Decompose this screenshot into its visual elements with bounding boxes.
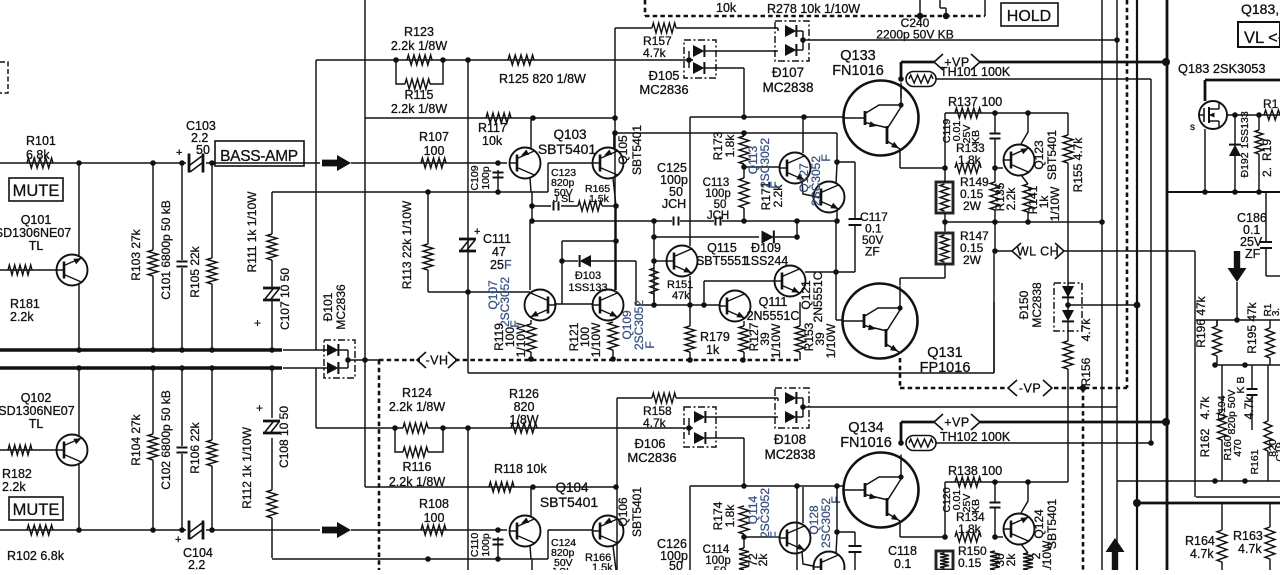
label R151 47k: [667, 279, 693, 302]
label R1..: [1263, 97, 1279, 111]
svg-text:+: +: [176, 147, 182, 159]
svg-text:Q104: Q104: [555, 480, 589, 495]
label R181 2.2k: [10, 297, 40, 324]
svg-text:100: 100: [424, 144, 445, 158]
node junction: [495, 189, 501, 195]
label Q103 SBT5401: [538, 127, 597, 157]
capacitor C186: [1260, 242, 1272, 248]
resistor R179: [685, 326, 695, 352]
label R104 27k: [129, 413, 143, 465]
wire: [744, 164, 779, 178]
wire: [271, 260, 273, 288]
svg-text:SD1306NE07: SD1306NE07: [0, 226, 71, 240]
label Q109 2SC3052 F: [620, 300, 657, 350]
wire: [995, 167, 1003, 169]
wire: [1216, 320, 1218, 326]
svg-text:R182: R182: [2, 467, 32, 481]
wire collector Q109: [615, 241, 617, 290]
label R157 4.7k: [643, 34, 672, 60]
wire: [351, 162, 507, 164]
node junction: [269, 365, 275, 371]
resistor R158: [652, 393, 676, 403]
node junction: [613, 238, 619, 244]
wire: [689, 352, 691, 359]
wire: [635, 261, 637, 305]
svg-text:SBT5551: SBT5551: [696, 254, 748, 268]
wire: [653, 294, 655, 305]
wire: [799, 302, 801, 360]
transistor Q123: [1004, 145, 1035, 176]
wire: [984, 0, 986, 16]
node junction: [898, 76, 904, 82]
resistor R137: [955, 108, 981, 118]
svg-text:4.7k: 4.7k: [1079, 318, 1093, 342]
transistor Q124: [1004, 514, 1035, 545]
svg-text:1.8k: 1.8k: [723, 134, 737, 158]
wire: [919, 0, 921, 16]
node junction: [528, 356, 534, 362]
node junction: [992, 248, 998, 254]
wire: [78, 163, 80, 256]
label R112 1k 1/10W: [240, 426, 254, 508]
label R160 470: [1222, 435, 1244, 460]
label R138 100: [948, 464, 1002, 478]
transistor Q105: [593, 148, 624, 179]
dashed box fragment: [0, 62, 8, 93]
svg-text:1.8k: 1.8k: [723, 504, 737, 528]
label R108 100: [419, 497, 449, 525]
wire emitter Q104: [530, 546, 531, 559]
label C107 10 50: [278, 268, 292, 330]
resistor R138: [955, 477, 981, 487]
node junction: [529, 203, 535, 209]
resistor R142: [1023, 553, 1033, 570]
label C101 6800p 50 kB: [159, 200, 173, 299]
node junction: [800, 404, 806, 410]
wire: [940, 0, 946, 16]
wire vertical bus thick: [1136, 0, 1138, 570]
label R155 4.7k: [1071, 137, 1085, 193]
capacitor C123: [551, 167, 576, 211]
wire: [1234, 115, 1236, 192]
label R147 0.15 2W: [960, 229, 989, 267]
svg-text:R278 10k 1/10W: R278 10k 1/10W: [767, 2, 860, 16]
svg-text:1.5k: 1.5k: [589, 193, 610, 205]
wire collector Q114: [802, 487, 804, 523]
wire: [1267, 365, 1269, 481]
label R172 2.2k: [746, 553, 770, 567]
wire: [743, 321, 745, 359]
input arrow: [322, 522, 351, 538]
wire: [591, 260, 636, 262]
wire: [744, 534, 779, 548]
node junction: [1234, 317, 1240, 323]
node junction: [741, 130, 747, 136]
boxed resistor R150: [936, 551, 953, 570]
wire: [690, 485, 843, 487]
wire: [617, 397, 652, 399]
resistor R163: [1265, 527, 1275, 559]
label Q114 2SC3052 F: [746, 488, 782, 539]
resistor R124: [403, 423, 428, 433]
wire emitter Q103: [530, 178, 531, 192]
wire collector Q128: [836, 534, 837, 554]
thermistor TH102: [906, 436, 936, 451]
label R137 100: [948, 95, 1002, 109]
node junction: [943, 13, 949, 19]
wire: [206, 162, 320, 164]
diode pair D106: [684, 407, 716, 447]
svg-text:R162: R162: [1198, 428, 1212, 457]
wire vertical: [614, 28, 616, 290]
capacitor C103: [176, 119, 216, 173]
wire: [836, 272, 843, 320]
svg-text:Q115: Q115: [707, 241, 737, 255]
transistor Q109: [593, 290, 624, 321]
resistor R107: [421, 158, 446, 168]
svg-text:0.1: 0.1: [894, 557, 911, 570]
label C240 2200p 50V KB: [876, 16, 953, 42]
node junction: [651, 258, 657, 264]
capacitor C113: [716, 217, 721, 226]
svg-text:1/10W: 1/10W: [769, 323, 783, 358]
node junction: [209, 365, 215, 371]
node junction: [741, 534, 747, 540]
wire: [936, 78, 1151, 80]
node junction: [76, 365, 82, 371]
svg-text:SBT5401: SBT5401: [630, 125, 644, 175]
wire: [1067, 481, 1069, 483]
svg-text:R102 6.8k: R102 6.8k: [7, 549, 65, 563]
node junction: [1080, 385, 1086, 391]
label R103 27k: [129, 228, 143, 280]
node junction: [440, 57, 446, 63]
wire bus: [0, 348, 282, 351]
label MUTE: [9, 178, 63, 201]
node junction: [992, 479, 998, 485]
node junction: [150, 365, 156, 371]
label Q121 2N5551C: [799, 271, 825, 322]
svg-text:C102 6800p 50 kB: C102 6800p 50 kB: [159, 390, 173, 489]
node junction: [530, 115, 536, 121]
label R121 100 1/10W: [567, 322, 603, 357]
wire: [78, 284, 80, 350]
node junction: [610, 356, 616, 362]
wire: [900, 149, 948, 171]
capacitor C102: [177, 448, 188, 453]
svg-text:R103 27k: R103 27k: [129, 228, 143, 280]
svg-text:10k: 10k: [482, 134, 503, 148]
svg-text:R155 4.7k: R155 4.7k: [1071, 137, 1085, 193]
wire: [561, 205, 578, 207]
label R166 1.5k: [551, 552, 613, 575]
svg-text:Q183 2SK3053: Q183 2SK3053: [1178, 61, 1266, 76]
capacitor C107: [254, 288, 280, 330]
transistor Q113: [780, 153, 811, 184]
svg-text:0.15: 0.15: [958, 556, 982, 570]
transistor Q134: [844, 453, 919, 528]
svg-text:2.2k 1/8W: 2.2k 1/8W: [391, 102, 447, 116]
svg-text:Q124: Q124: [1032, 509, 1046, 539]
node junction: [741, 164, 747, 170]
resistor R115: [396, 60, 443, 89]
node junction: [992, 110, 998, 116]
label Q133 FN1016: [832, 48, 884, 79]
capacitor C120: [990, 503, 1001, 508]
svg-text:Đ105: Đ105: [648, 68, 679, 83]
wire vertical: [467, 60, 469, 373]
svg-text:47: 47: [492, 245, 506, 259]
node junction: [917, 13, 923, 19]
svg-text:4.7k: 4.7k: [643, 416, 667, 430]
wire: [705, 68, 744, 117]
label R156 4.7k: [1079, 318, 1093, 387]
label Q183 2SK3053: [1178, 61, 1266, 76]
wire: [1196, 496, 1280, 498]
transistor Q103: [510, 148, 541, 179]
wire: [995, 250, 1012, 252]
wire: [152, 368, 154, 434]
wire: [562, 260, 578, 262]
wire: [615, 27, 652, 29]
wire: [994, 168, 996, 251]
diode pair D107: [775, 21, 809, 61]
node junction: [179, 347, 185, 353]
wire: [1269, 503, 1271, 570]
label D106 MC2836: [627, 436, 676, 465]
svg-text:2k: 2k: [756, 553, 770, 567]
capacitor C194: [1247, 389, 1258, 395]
wire: [993, 251, 995, 373]
transistor Q115: [667, 246, 698, 277]
node junction: [1134, 302, 1141, 309]
svg-text:100p: 100p: [480, 533, 492, 557]
svg-text:6.8k: 6.8k: [26, 148, 50, 162]
wire: [900, 521, 948, 540]
svg-text:Đ108: Đ108: [774, 432, 806, 447]
wire: [654, 260, 668, 262]
wire: [1067, 322, 1069, 482]
label Q131 FP1016: [920, 345, 971, 376]
mosfet Q183: [1199, 101, 1227, 129]
wire: [211, 163, 213, 258]
label C120 0.01 25V KB: [941, 487, 982, 513]
svg-text:Q123: Q123: [1032, 140, 1046, 170]
svg-text:2.2k: 2.2k: [10, 310, 34, 324]
svg-text:Q183,1: Q183,1: [1241, 1, 1280, 17]
label R150 0.15 2W: [958, 544, 987, 570]
wire: [797, 486, 855, 570]
label C117 0.1 50V ZF: [860, 210, 888, 259]
svg-text:+: +: [254, 316, 261, 330]
svg-text:F: F: [504, 258, 512, 272]
node junction: [834, 483, 840, 489]
resistor R105: [207, 258, 217, 284]
resistor R173: [739, 136, 749, 164]
label C113 100p 50 JCH: [703, 177, 731, 222]
svg-text:3.: 3.: [1271, 308, 1280, 316]
wire: [1067, 113, 1069, 288]
transistor Q101: [57, 255, 88, 286]
svg-text:100: 100: [424, 511, 445, 525]
node junction: [1202, 189, 1208, 195]
svg-text:Q105: Q105: [616, 135, 630, 165]
wire dotted: [644, 0, 647, 16]
wire: [271, 368, 273, 418]
label C125 100p 50 JCH: [657, 161, 688, 211]
node junction: [1212, 478, 1218, 484]
resistor R118: [489, 482, 514, 492]
resistor R121: [608, 322, 618, 350]
transistor Q131: [843, 284, 918, 359]
svg-text:R125 820 1/8W: R125 820 1/8W: [499, 72, 586, 86]
resistor: [1264, 110, 1280, 120]
wire: [941, 302, 994, 373]
capacitor C118: [849, 546, 862, 552]
wire: [206, 529, 320, 531]
svg-text:25: 25: [490, 258, 504, 272]
node junction: [651, 234, 657, 240]
wire: [152, 163, 154, 250]
label R107 100: [419, 130, 449, 158]
resistor R196: [1213, 326, 1222, 356]
label Q102 2SD1306NE07 TL: [0, 391, 75, 431]
wire: [561, 241, 563, 304]
svg-text:47k: 47k: [672, 290, 690, 302]
label D108 MC2838: [764, 432, 815, 462]
transistor Q121: [775, 266, 806, 297]
node junction: [1148, 440, 1154, 446]
node junction: [992, 165, 998, 171]
label D107 MC2838: [762, 65, 813, 95]
label R141 1k 1/10W: [1026, 185, 1062, 221]
label R126 820 1/8W: [509, 387, 539, 427]
svg-text:VL <-: VL <-: [1244, 29, 1280, 47]
wire: [944, 482, 946, 537]
svg-text:TH102 100K: TH102 100K: [940, 430, 1011, 444]
svg-text:4.7k: 4.7k: [1238, 542, 1262, 556]
svg-text:C19: C19: [1274, 442, 1280, 461]
resistor R119: [526, 324, 536, 352]
node junction: [1133, 499, 1141, 507]
wire bus thick: [1137, 502, 1280, 505]
resistor R125: [508, 55, 534, 65]
wire dotted vertical: [1082, 388, 1085, 570]
node junction: [1256, 189, 1262, 195]
node junction: [651, 302, 657, 308]
svg-text:+: +: [256, 401, 263, 415]
label R123 2.2k 1/8W: [391, 25, 447, 53]
resistor R141: [1023, 184, 1033, 212]
node junction: [440, 425, 446, 431]
diode pair D101: [283, 340, 355, 378]
resistor R117: [486, 113, 511, 123]
wire collector Q103: [530, 118, 532, 148]
label TH102 100K: [940, 430, 1011, 444]
wire: [1236, 282, 1238, 320]
wire: [945, 112, 1068, 114]
svg-text:HOLD: HOLD: [1007, 8, 1051, 25]
node junction: [150, 160, 156, 166]
wire: [211, 466, 213, 530]
label R135 2.2k: [993, 182, 1018, 211]
node junction: [362, 357, 368, 363]
wire: [316, 368, 684, 428]
node junction: [794, 234, 800, 240]
resistor R126: [511, 423, 537, 433]
label C119 0.01 25V KB: [941, 119, 982, 144]
wire: [796, 221, 798, 237]
svg-text:R137 100: R137 100: [948, 95, 1002, 109]
node junction: [179, 160, 185, 166]
wire: [1266, 192, 1280, 276]
wire: [554, 303, 592, 305]
wire: [531, 192, 533, 221]
svg-text:JCH: JCH: [707, 210, 729, 222]
net label WL CH: [1012, 243, 1064, 259]
svg-text:Q131: Q131: [927, 345, 962, 361]
wire thick: [980, 421, 1166, 424]
wire: [532, 220, 654, 222]
wire: [684, 418, 693, 435]
svg-text:Đ106: Đ106: [634, 436, 665, 451]
svg-text:F: F: [819, 154, 833, 161]
svg-text:Q101: Q101: [21, 213, 52, 227]
svg-text:1/10W: 1/10W: [1048, 186, 1062, 221]
wire: [316, 59, 684, 61]
svg-text:K B: K B: [1235, 377, 1247, 394]
wire: [532, 205, 551, 207]
svg-text:2SD1306NE07: 2SD1306NE07: [0, 404, 75, 418]
svg-text:MC2838: MC2838: [764, 447, 815, 462]
label R124 2.2k 1/8W: [389, 386, 445, 414]
node junction: [76, 160, 82, 166]
label R158 4.7k: [643, 404, 672, 430]
label C114 100p 50: [703, 544, 731, 575]
svg-text:C108 10 50: C108 10 50: [277, 406, 291, 468]
label Q128 2SC3052 F: [807, 496, 843, 548]
label D192 1SS133: [1239, 111, 1251, 177]
wire: [654, 304, 720, 306]
svg-text:R161: R161: [1249, 449, 1261, 474]
svg-text:2SC3052: 2SC3052: [758, 488, 772, 538]
label R163 4.7k: [1233, 529, 1263, 556]
wire: [272, 163, 592, 192]
svg-text:2SC3052: 2SC3052: [498, 277, 512, 327]
svg-text:-VP: -VP: [1019, 382, 1041, 396]
resistor R112: [267, 490, 277, 518]
diode D109: [762, 231, 774, 244]
node junction: [1162, 418, 1170, 426]
label Q124 SBT5401: [1032, 499, 1059, 549]
svg-text:2k: 2k: [1004, 553, 1018, 567]
wire bus -VP dotted: [900, 358, 1006, 388]
svg-text:R156: R156: [1079, 357, 1093, 386]
label HOLD: [1001, 3, 1058, 26]
svg-text:MC2838: MC2838: [1030, 282, 1044, 328]
wire emitter Q113: [802, 182, 813, 196]
power arrow: [1106, 538, 1125, 570]
wire: [1068, 304, 1137, 306]
label Q104 SBT5401: [540, 480, 599, 510]
svg-text:R195 47k: R195 47k: [1245, 301, 1259, 353]
svg-text:1/10W: 1/10W: [589, 322, 603, 357]
resistor R165: [578, 183, 610, 211]
label R142 1k 1/10W: [1029, 540, 1054, 575]
wire: [1196, 319, 1280, 321]
label R119 100 1/10W: [492, 322, 528, 357]
diode pair D150: [1054, 283, 1082, 331]
